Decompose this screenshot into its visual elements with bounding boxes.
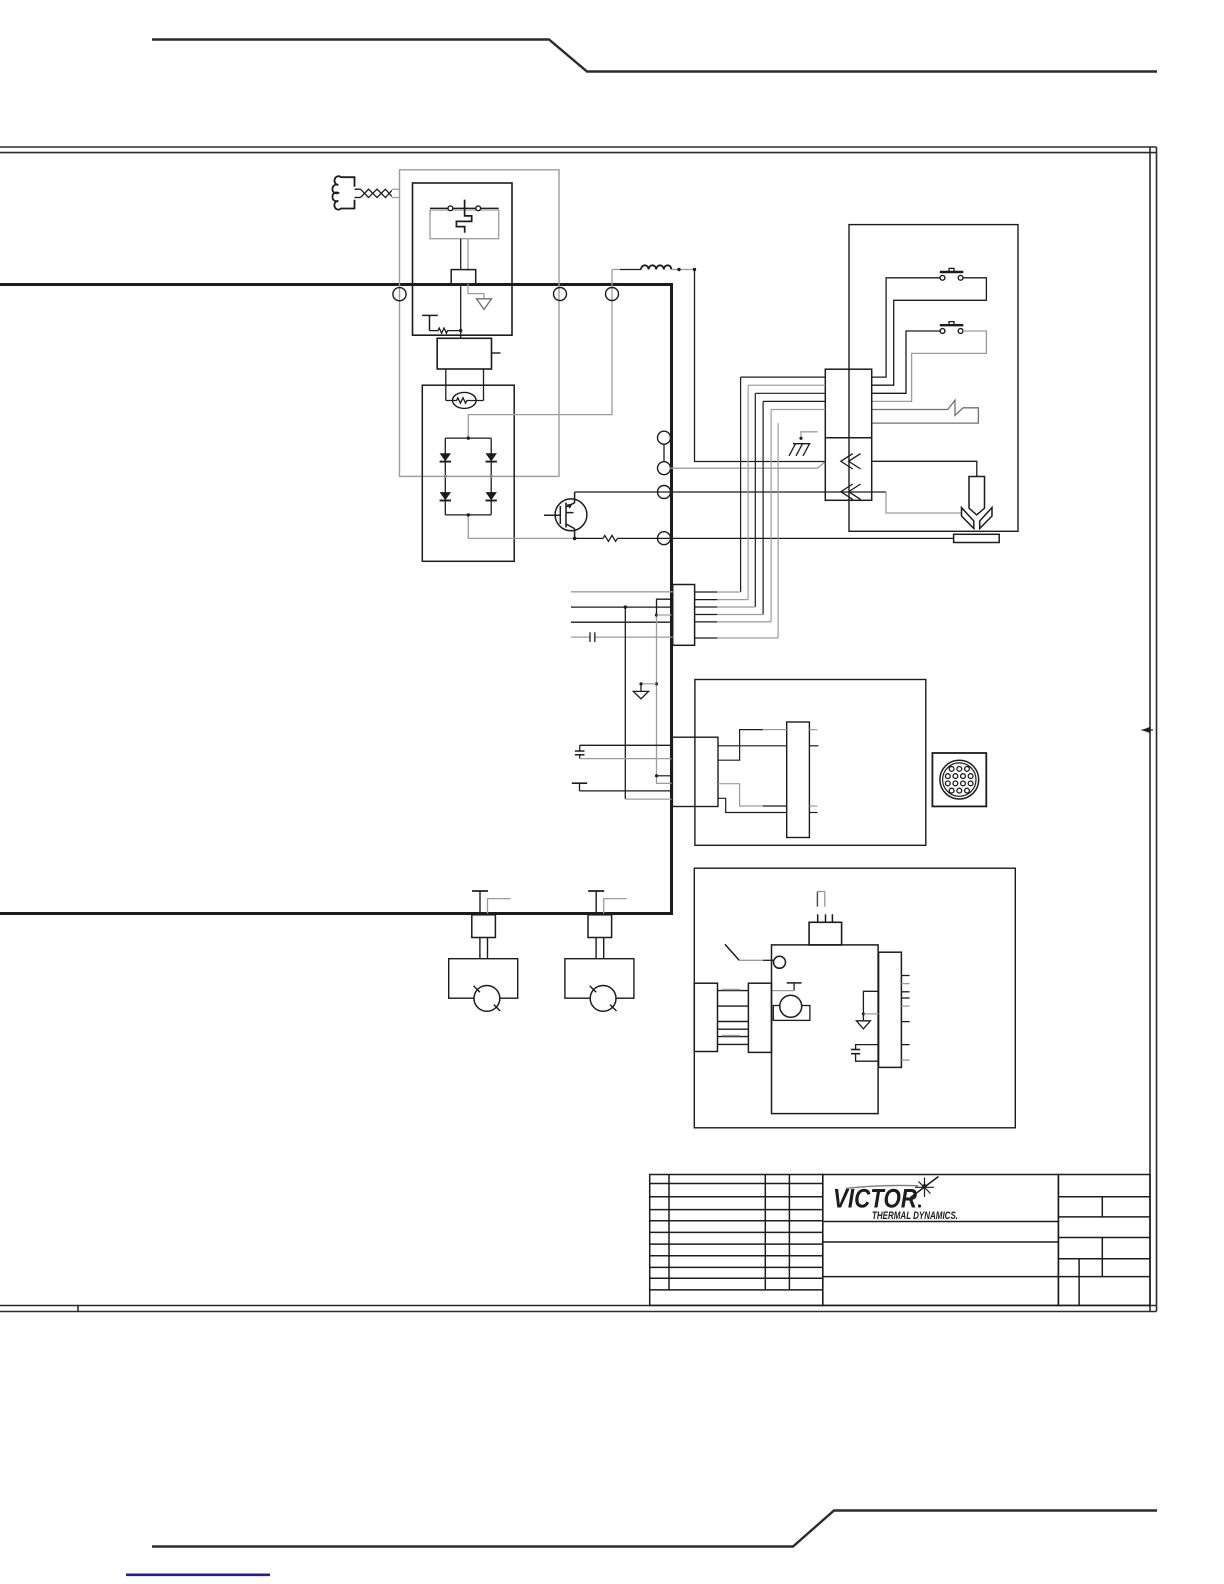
transformer secondary leads xyxy=(446,369,484,401)
inductor tails xyxy=(612,269,620,271)
thermal cutout and resistor xyxy=(422,315,461,333)
bridge rails xyxy=(445,438,491,515)
wordmark starburst xyxy=(911,1177,939,1198)
gas ground loop xyxy=(856,991,878,1029)
torch connector block xyxy=(825,369,871,500)
pilot lead from inductor xyxy=(695,270,826,462)
CNC internal wire A xyxy=(718,745,819,747)
control harness verticals xyxy=(741,377,779,638)
CNC pair 2 with plate xyxy=(572,783,672,791)
plug wire stubs xyxy=(355,189,361,197)
J2 harness links xyxy=(717,592,778,638)
CNC internal wire D xyxy=(718,798,818,812)
chassis ground lead xyxy=(801,432,818,439)
gas lever switch xyxy=(725,944,786,968)
air regulator right block xyxy=(748,983,771,1052)
gas PCB header xyxy=(879,952,902,1067)
gas filter capacitor loop xyxy=(851,1045,879,1062)
IGBT Q1 xyxy=(544,492,587,538)
CNC interface box xyxy=(695,680,926,846)
relay coil (gray) xyxy=(430,210,499,239)
receptacle pins xyxy=(945,767,973,793)
CNC pair 1 with capacitor xyxy=(575,745,672,758)
SW2 wiring loop (gray) xyxy=(872,331,987,401)
lower connector block J2 xyxy=(673,585,695,646)
twisted pair tails to shield xyxy=(392,189,400,197)
torch assembly box xyxy=(849,225,1018,532)
title block right panel xyxy=(1058,1175,1150,1306)
feedthrough circles on top border xyxy=(393,288,619,301)
revision table xyxy=(650,1175,823,1306)
relay coil lead B (gray) xyxy=(467,239,469,270)
electrode wire (collector rail) xyxy=(575,491,886,493)
IGBT arrow xyxy=(567,504,573,509)
J2 input wire 3 xyxy=(571,621,673,623)
diode D4 xyxy=(486,492,497,500)
diode D3 xyxy=(440,492,451,500)
coil lead continues to transformer xyxy=(460,284,462,339)
title block center panel xyxy=(823,1175,1150,1306)
signal ground arrow xyxy=(633,682,658,699)
header decorative rule xyxy=(152,40,1157,72)
tip lead to torch xyxy=(872,461,977,476)
IGBT emitter junction dot xyxy=(573,537,577,541)
CNC internal wire C xyxy=(718,784,818,806)
EMI shield enclosure (gray) xyxy=(400,170,560,477)
diode D2 xyxy=(486,453,497,461)
pilot jog from feedthrough xyxy=(671,462,826,469)
drawing frame right border xyxy=(1150,147,1157,1312)
chassis ground symbol xyxy=(789,444,811,456)
regulator hose lines xyxy=(718,991,749,1045)
output inductor L1 xyxy=(620,265,671,269)
control transformer block xyxy=(437,338,491,369)
drawing frame top border xyxy=(0,147,1157,153)
CNC feed vertical A xyxy=(624,607,626,799)
junction dot thermal/coil lead xyxy=(459,329,462,332)
bridge rectifier box xyxy=(422,385,514,561)
pressure switch xyxy=(773,995,810,1020)
solenoid pins xyxy=(818,914,833,922)
remote receptacle xyxy=(932,753,986,806)
CNC connector block xyxy=(672,737,718,806)
fan M1 xyxy=(449,891,518,1011)
SW1 wiring loop xyxy=(872,278,987,385)
transformer stub xyxy=(492,352,501,354)
fan M2 xyxy=(565,891,634,1011)
svg-text:THERMAL DYNAMICS.: THERMAL DYNAMICS. xyxy=(872,1210,958,1222)
relay contact terminals xyxy=(448,206,481,211)
wordmark swoosh xyxy=(846,1185,918,1188)
hyperlink underline xyxy=(126,1574,270,1577)
J2 input wire 4 with capacitor xyxy=(571,632,673,642)
diode D1 xyxy=(440,453,451,461)
shield feed wire (gray) xyxy=(468,270,612,439)
feedthrough circles on right border xyxy=(658,431,671,545)
relay box xyxy=(413,183,513,335)
electrode wire drop to torch xyxy=(886,492,962,513)
gas PCB pins xyxy=(901,976,909,1061)
CNC internal wire B xyxy=(718,730,818,761)
hose highlights (gray) xyxy=(722,990,740,1036)
spark gap upper xyxy=(841,454,861,469)
frame centering arrow xyxy=(1142,727,1151,733)
J2 input wire 2 xyxy=(571,606,673,608)
junction dot bridge top xyxy=(467,436,470,439)
PIP interlock loop with break xyxy=(872,400,979,423)
bridge AC junction dots xyxy=(444,475,493,478)
earth arrow xyxy=(477,299,492,310)
link between terminals xyxy=(663,444,665,462)
main power PCB block boundary xyxy=(0,285,672,914)
relay armature blade xyxy=(456,200,471,233)
torch switch SW2 xyxy=(940,322,964,334)
earth lead (gray) xyxy=(468,284,484,299)
junction dot bridge bottom xyxy=(467,513,470,516)
drawing frame bottom border xyxy=(0,1306,1157,1312)
torch head xyxy=(962,477,993,529)
AC input plug xyxy=(332,176,354,209)
torch switch SW1 xyxy=(940,268,964,280)
harness top links to torch connector xyxy=(741,377,826,409)
solenoid valve box xyxy=(809,922,842,945)
J2 input wire 1 (gray) xyxy=(571,591,673,593)
gas manifold block xyxy=(772,945,879,1114)
relay coil lead A xyxy=(460,239,462,270)
vertical B taps xyxy=(655,613,658,616)
bridge DC output lead (gray) xyxy=(468,515,574,539)
twisted input pair xyxy=(361,189,392,197)
inductor junction dots xyxy=(677,268,680,271)
junction dot wire 2 xyxy=(624,605,627,608)
varistor RV1 xyxy=(453,392,477,408)
J2 right pin stubs xyxy=(695,592,718,638)
spark gap lower xyxy=(841,484,861,499)
footer decorative rule xyxy=(152,1511,1157,1547)
pressure tap T xyxy=(772,983,802,991)
gas control box xyxy=(694,868,1015,1128)
work lead with series resistor xyxy=(575,535,954,541)
workpiece xyxy=(954,534,1000,542)
CNC relay block xyxy=(787,722,810,838)
CNC feed vertical B xyxy=(657,599,673,615)
svg-text:VICTOR: VICTOR xyxy=(833,1184,917,1214)
terminal block on border xyxy=(451,270,476,284)
relay contact wire xyxy=(430,207,499,209)
solenoid exhaust (gray) xyxy=(817,892,824,907)
air regulator left block xyxy=(694,983,717,1051)
